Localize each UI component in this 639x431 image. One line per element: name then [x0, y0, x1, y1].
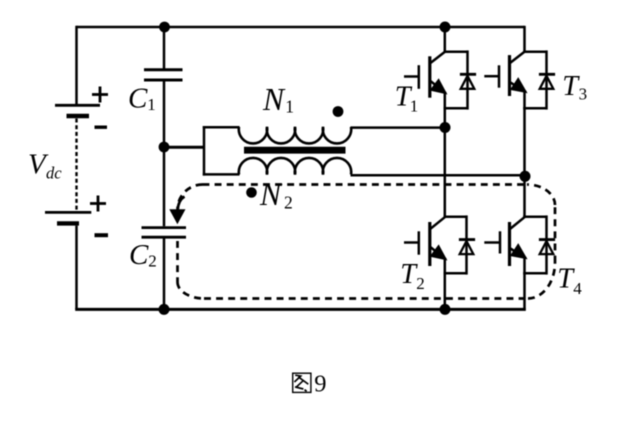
- battery cell B2 lower: [45, 212, 91, 223]
- diode D3: [539, 74, 555, 89]
- label - of B2: [95, 233, 109, 237]
- capacitor C2: [142, 228, 187, 238]
- svg-text:T: T: [562, 71, 580, 102]
- label - of B1: [95, 125, 108, 128]
- label + of B2: [90, 196, 106, 212]
- wire T3 emitter down to T3/T4 midpoint node: [523, 92, 526, 177]
- svg-text:2: 2: [148, 252, 157, 271]
- label T1: [395, 82, 419, 116]
- svg-text:3: 3: [579, 84, 588, 103]
- svg-text:dc: dc: [46, 164, 62, 183]
- wire C2 to bottom rail: [163, 239, 166, 310]
- diode D1: [460, 74, 476, 89]
- label T3: [562, 71, 587, 104]
- transistor T1 (IGBT): [404, 52, 446, 98]
- diode D4: [539, 240, 555, 255]
- diode D2: [459, 240, 475, 255]
- svg-text:2: 2: [284, 192, 293, 212]
- transistor T3 (IGBT): [484, 52, 526, 96]
- wire center column top (rail to C1): [163, 27, 166, 70]
- wire diode D1 branch: [466, 50, 469, 109]
- wire T2 collector from midpoint: [444, 128, 447, 218]
- winding N2 arcs: [239, 158, 351, 175]
- svg-text:1: 1: [147, 95, 156, 114]
- wire T1 emitter stub to diode D1: [444, 107, 468, 110]
- label N1: [262, 82, 294, 117]
- svg-text:1: 1: [285, 97, 294, 117]
- svg-text:1: 1: [410, 96, 419, 115]
- winding N2 left lead from box: [203, 173, 240, 176]
- winding N2 right line to T3/T4 midpoint: [351, 174, 526, 177]
- wire T3 emitter stub to diode D3: [523, 107, 546, 110]
- label N2: [259, 177, 293, 212]
- transformer core bar: [244, 147, 346, 154]
- svg-text:4: 4: [573, 279, 582, 298]
- wire T1 emitter down to midpoint node: [444, 93, 447, 128]
- transformer left box: [203, 126, 206, 176]
- wire bottom rail: [75, 308, 526, 311]
- svg-text:9: 9: [314, 371, 326, 398]
- battery cell B1 upper: [55, 105, 100, 116]
- wire C1 to center node: [163, 82, 166, 148]
- wire T2 emitter stub to diode D2: [444, 272, 467, 275]
- wire diode D2 branch: [465, 215, 468, 274]
- node dot center (C1/C2/transformer feed): [159, 142, 170, 153]
- wire diode D4 branch: [545, 215, 548, 274]
- dashed loop bottom side: [204, 297, 528, 300]
- node dot top rail / T1 branch: [440, 22, 451, 33]
- label C1: [128, 83, 156, 115]
- svg-text:C: C: [129, 239, 149, 271]
- label C2: [129, 239, 157, 271]
- arrowhead of dashed loop (points into C2): [169, 209, 185, 224]
- transistor T2 (IGBT): [404, 217, 446, 266]
- winding N1 arcs: [239, 127, 351, 144]
- wire feed from center node to transformer box: [164, 146, 204, 149]
- wire T2 collector stub to diode D2: [444, 215, 467, 218]
- svg-text:N: N: [259, 177, 283, 212]
- svg-text:2: 2: [416, 274, 425, 293]
- wire T4 emitter down to bottom rail end: [523, 258, 526, 311]
- wire center node to C2: [163, 147, 166, 226]
- wire T2 emitter down to bottom rail: [444, 259, 447, 309]
- dashed loop bottom-left corner: [178, 282, 205, 299]
- wire T3 collector stub to diode D3: [523, 50, 546, 53]
- winding N1 left lead from box: [203, 126, 240, 129]
- wire top rail: [77, 26, 525, 29]
- wire T1 collector stub to diode D1: [444, 50, 468, 53]
- dashed loop top-right corner: [527, 185, 555, 206]
- arrow tail curve of dashed loop: [178, 197, 185, 211]
- node dot T3/T4 midpoint: [520, 171, 531, 182]
- dashed loop top-left corner into arrow: [178, 185, 203, 210]
- winding N1 right line to T1/T2 midpoint: [351, 126, 446, 129]
- phase dot N1: [333, 106, 344, 117]
- node dot at bottom rail / C2 column: [159, 304, 170, 315]
- wire dashed battery link: [75, 119, 77, 211]
- wire top rail corner down to T3: [523, 26, 526, 52]
- label T2: [400, 259, 425, 293]
- wire T4 collector from midpoint: [523, 176, 526, 217]
- dashed commutation loop top side: [203, 183, 528, 186]
- wire left column upper (rail to battery): [75, 26, 78, 106]
- node dot at top rail / C1 column: [159, 22, 170, 33]
- label Vdc: [28, 148, 62, 182]
- svg-text:N: N: [262, 82, 286, 117]
- node dot bottom rail / T2: [440, 304, 451, 315]
- dashed loop right side: [554, 205, 557, 263]
- label T4: [557, 264, 582, 298]
- phase dot N2: [246, 187, 257, 198]
- wire T4 collector stub to diode D4: [523, 215, 546, 218]
- svg-text:C: C: [128, 83, 148, 115]
- transistor T4 (IGBT): [484, 217, 526, 266]
- wire left column lower (battery to bottom rail): [75, 226, 78, 310]
- caption glyph 图 (drawn): [293, 373, 311, 392]
- wire T1 collector from rail: [444, 27, 447, 52]
- wire diode D3 branch: [545, 50, 548, 109]
- node dot T1/T2 midpoint: [440, 122, 451, 133]
- wire T4 emitter stub to diode D4: [523, 272, 546, 275]
- dashed loop left side below C2: [176, 241, 179, 282]
- dashed loop bottom-right corner: [528, 263, 555, 299]
- label + of B1: [92, 87, 108, 103]
- capacitor C1: [144, 70, 183, 80]
